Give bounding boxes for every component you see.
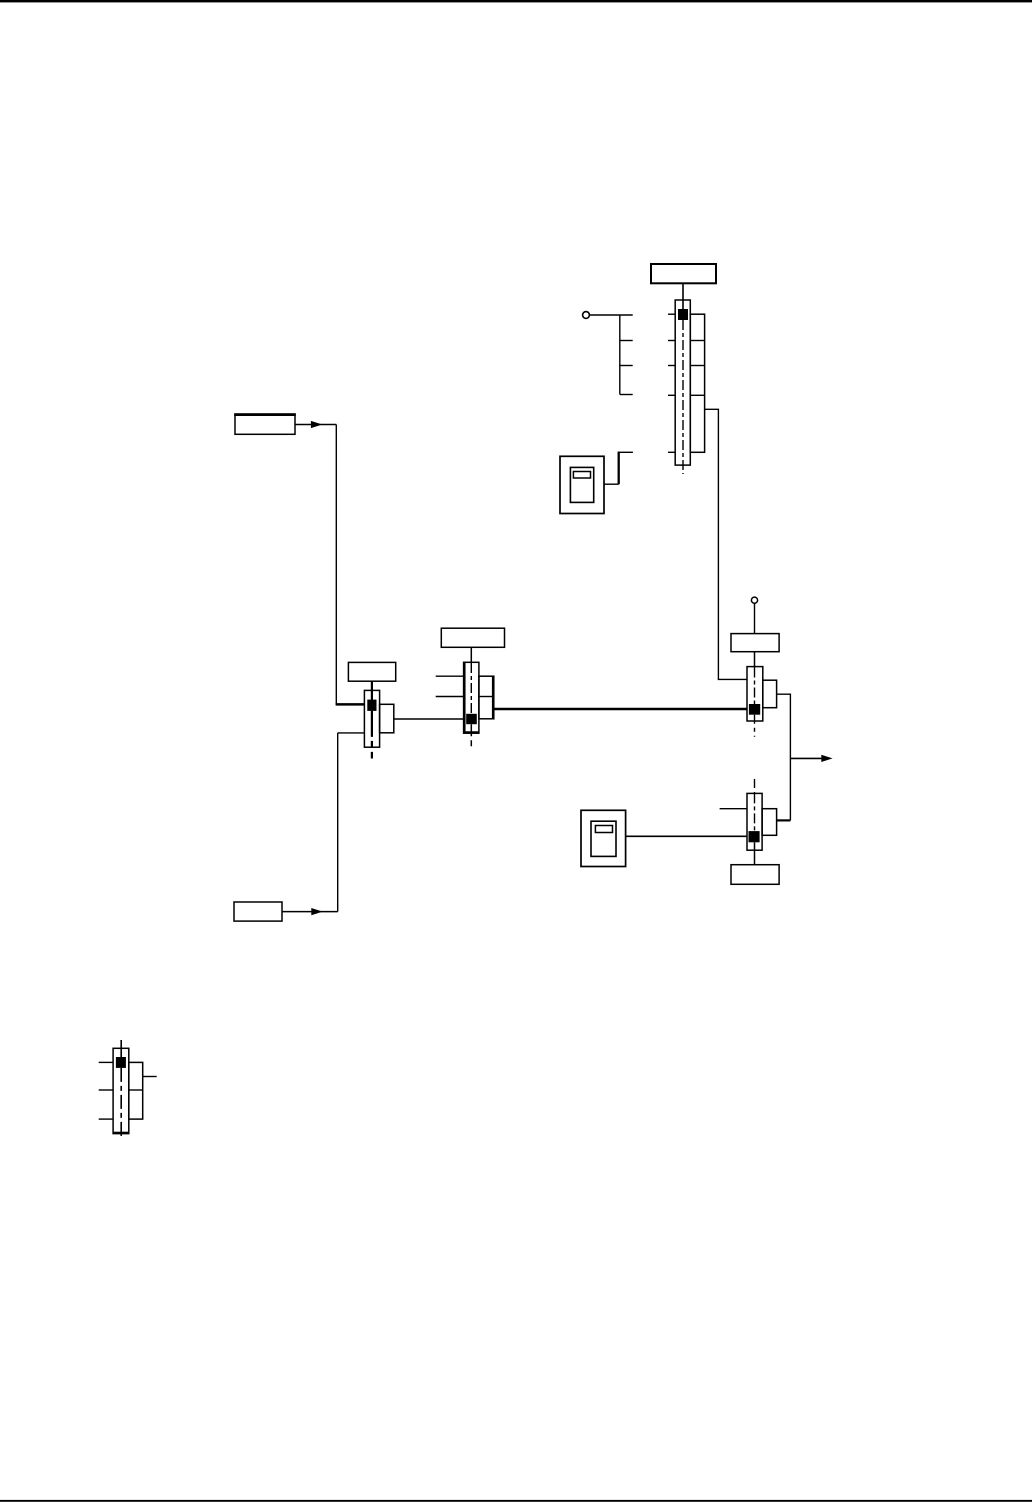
legend sleeve divider — [129, 1089, 143, 1091]
legend shaft — [113, 1048, 129, 1133]
clutch C2 shaft thick bottom edge — [464, 731, 479, 733]
clutch C4 black square — [749, 831, 760, 842]
clutch C2 gear tick 1 — [436, 675, 464, 677]
sleeve SL1 divider 2 — [690, 365, 704, 367]
wire B1 vertical drop — [335, 425, 337, 705]
comb tick 3 — [620, 365, 633, 367]
clutch C3 sleeve — [763, 680, 777, 708]
clutch C1 centerline lower (thick dash) — [371, 711, 373, 759]
stub into clutch C1 lower — [338, 732, 365, 734]
clutch C2 shaft thick left edge — [463, 662, 465, 733]
terminal circle T2 — [751, 597, 757, 603]
wire from sleeve SL1 to down bus — [705, 409, 747, 679]
clutch C2 centerline solid upper — [470, 647, 472, 663]
legend shaft thick bottom edge — [113, 1132, 129, 1134]
sleeve SL1 divider 3 — [690, 394, 704, 396]
sensor box SB1 window — [573, 472, 590, 479]
input box B1 — [235, 414, 295, 434]
clutch C4 gear tick — [720, 808, 747, 810]
clutch C2 gear tick 2 — [436, 696, 464, 698]
legend shaft centerline upper solid — [120, 1040, 122, 1058]
comb tick 2 — [620, 340, 633, 342]
thick stub riser to C4 sleeve — [777, 819, 791, 821]
comb tick 4 — [620, 394, 633, 396]
main drive bus (thick) — [494, 708, 747, 711]
wire C3 sleeve to output riser — [777, 694, 791, 820]
wire from T1 — [590, 314, 633, 316]
sensor box SB2 outer — [581, 810, 626, 866]
clutch C2 shaft — [464, 662, 479, 733]
sensor box SB2 inner — [591, 821, 616, 856]
sensor box SB1 outer — [560, 456, 604, 513]
wire SB1 top stub — [619, 451, 633, 453]
legend shaft centerline dash — [120, 1068, 122, 1139]
clutch C3 black square — [749, 704, 760, 715]
clutch C4 sleeve — [762, 809, 777, 836]
shaft S1 gear tick 1 — [668, 313, 675, 315]
clutch K1 (black square) — [678, 309, 688, 320]
top page rule — [0, 0, 1032, 2]
clutch C2 centerline dash — [470, 663, 472, 714]
clutch C4 shaft — [747, 793, 762, 850]
wire from B1 — [295, 424, 336, 426]
clutch C1 shaft — [364, 690, 379, 747]
output arrowhead — [821, 755, 832, 762]
input box B2 — [234, 902, 282, 921]
gear sleeve SL1 — [690, 314, 704, 452]
label box LB1 (top shaft) — [651, 264, 716, 283]
clutch C2 centerline lower — [470, 724, 472, 747]
wire SB1 horizontal — [604, 483, 619, 485]
label box LB5 (below C4) — [731, 865, 779, 885]
label box LB2 (clutch C1) — [348, 662, 395, 681]
wire C1 to C2 — [394, 718, 464, 720]
centerline shaft S1 upper solid — [682, 283, 684, 310]
clutch C2 sleeve divider — [479, 696, 494, 698]
clutch C4 centerline lower solid — [754, 842, 756, 864]
sensor box SB2 window — [595, 826, 612, 833]
wire SB2 to clutch C4 — [626, 835, 747, 837]
arrowhead A1 — [311, 421, 322, 428]
clutch C1 centerline upper solid (thick) — [371, 681, 373, 700]
clutch C3 shaft — [747, 667, 763, 721]
legend sleeve — [129, 1062, 143, 1119]
arrowhead A2 — [311, 908, 322, 915]
wire SB1 vertical (thick) — [618, 452, 620, 485]
input box B1 thick top edge — [234, 413, 296, 416]
clutch C2 black square — [466, 714, 477, 724]
thick stub into clutch C1 — [336, 703, 365, 706]
shaft S1 gear tick 3 — [668, 365, 675, 367]
centerline shaft S1 (dash-dot) — [682, 320, 684, 474]
bottom page rule — [0, 1500, 1032, 1502]
clutch C4 centerline upper dash — [754, 779, 756, 793]
wire from B2 — [282, 911, 338, 913]
wire B2 vertical rise — [337, 733, 339, 912]
shaft S1 gear tick 5 — [668, 451, 675, 453]
shaft S1 gear tick 2 — [668, 340, 675, 342]
output arrow line — [790, 757, 821, 759]
legend right tick — [143, 1076, 157, 1078]
clutch C4 centerline dash inside — [754, 793, 756, 831]
sleeve SL1 divider 1 — [690, 340, 704, 342]
shaft S1 gear tick 4 — [668, 394, 675, 396]
clutch C3 centerline lower dash — [754, 715, 756, 737]
clutch C1 black square — [367, 700, 376, 711]
legend gear tick 1 — [99, 1061, 113, 1063]
sensor box SB1 inner — [570, 467, 593, 502]
label box LB3 (clutch C2) — [441, 628, 504, 647]
comb vertical — [619, 315, 621, 395]
wire T2 to LB4 — [754, 604, 756, 634]
gear shaft S1 — [675, 300, 690, 465]
legend black square — [116, 1057, 126, 1068]
legend gear tick 3 — [99, 1118, 113, 1120]
clutch C2 sleeve thick right edge — [492, 676, 494, 719]
clutch C3 centerline solid upper — [754, 652, 756, 668]
clutch C1 sleeve — [380, 704, 394, 733]
terminal circle T1 — [583, 312, 590, 319]
label box LB4 (clutch C3) — [731, 634, 779, 652]
legend gear tick 2 — [99, 1089, 113, 1091]
clutch C2 sleeve — [479, 676, 494, 719]
clutch C3 centerline dash — [754, 668, 756, 705]
